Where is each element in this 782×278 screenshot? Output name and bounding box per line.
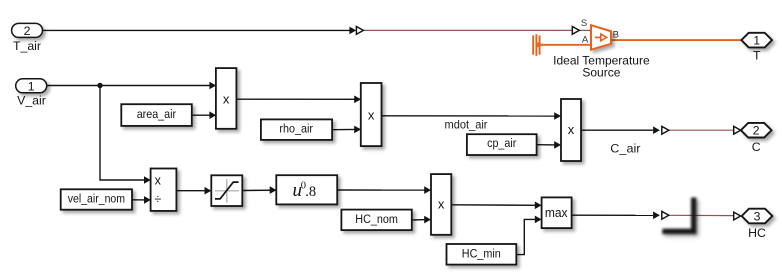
svg-text:Source: Source: [582, 65, 620, 79]
svg-text:C: C: [752, 140, 761, 154]
svg-text:cp_air: cp_air: [487, 136, 516, 150]
svg-text:area_air: area_air: [137, 107, 176, 121]
svg-text:vel_air_nom: vel_air_nom: [68, 192, 125, 206]
svg-text:HC: HC: [748, 226, 766, 240]
svg-text:x: x: [438, 197, 445, 212]
svg-text:C_air: C_air: [610, 141, 640, 155]
svg-text:HC_min: HC_min: [462, 246, 501, 260]
svg-text:HC_nom: HC_nom: [355, 212, 398, 226]
svg-text:x: x: [223, 92, 230, 107]
svg-text:B: B: [613, 30, 619, 41]
svg-text:÷: ÷: [154, 193, 161, 207]
svg-text:x: x: [568, 122, 575, 137]
svg-text:V_air: V_air: [17, 94, 46, 108]
svg-text:2: 2: [753, 124, 760, 138]
svg-text:S: S: [581, 18, 587, 29]
svg-text:1: 1: [28, 79, 35, 93]
svg-text:x: x: [368, 108, 375, 123]
svg-text:3: 3: [754, 209, 761, 223]
svg-text:1: 1: [753, 34, 760, 48]
svg-text:T_air: T_air: [13, 39, 41, 53]
svg-text:A: A: [582, 35, 589, 46]
svg-text:T: T: [753, 48, 761, 62]
svg-text:rho_air: rho_air: [279, 121, 313, 135]
svg-text:x: x: [155, 174, 162, 188]
svg-text:.8: .8: [305, 184, 316, 200]
svg-text:2: 2: [24, 24, 31, 38]
svg-text:mdot_air: mdot_air: [445, 119, 488, 132]
svg-text:max: max: [545, 206, 568, 220]
